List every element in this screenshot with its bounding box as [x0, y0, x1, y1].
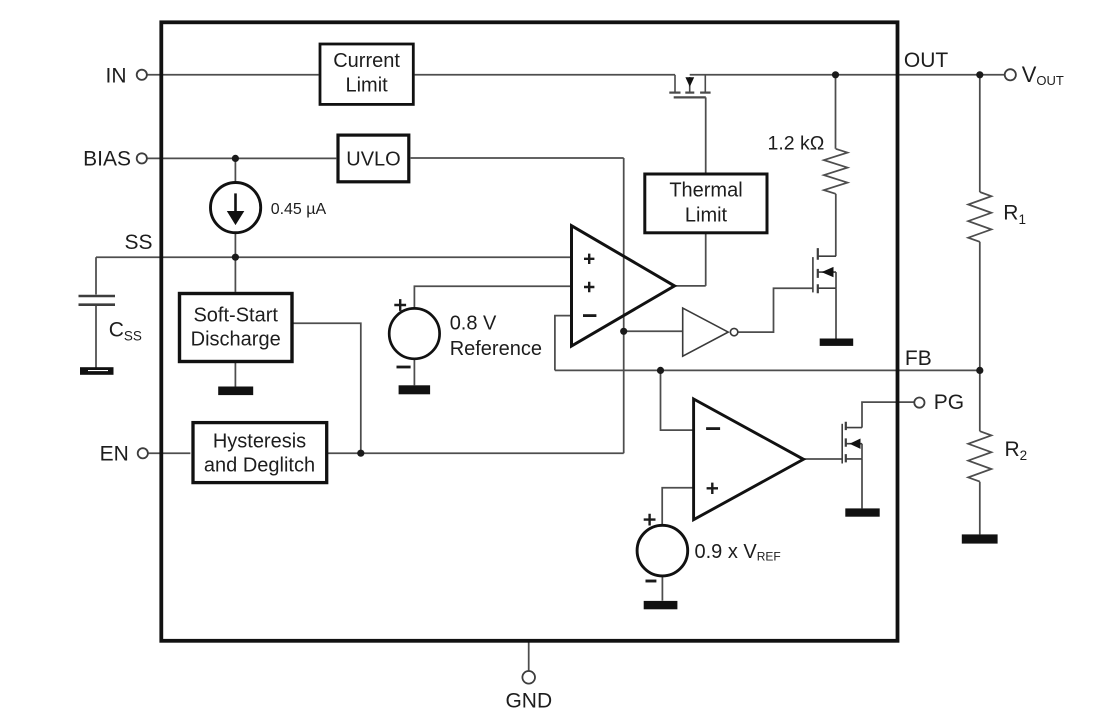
wire GND stub: [528, 642, 530, 671]
wire OUT to 1.2k resistor: [835, 75, 837, 149]
capacitor Css: [79, 296, 116, 305]
op-amp U2 power-good comparator: [694, 399, 804, 520]
svg-text:Discharge: Discharge: [191, 329, 281, 351]
ground under Soft-Start Discharge: [218, 387, 253, 396]
wire SS line to Soft-Start Discharge box: [234, 257, 236, 292]
svg-text:R2: R2: [1005, 438, 1028, 463]
ground under Q3: [845, 508, 879, 516]
svg-text:FB: FB: [905, 347, 932, 370]
resistor 1.2 kOhm: [824, 149, 848, 194]
wire comparator output to Q3 gate: [804, 458, 843, 460]
pin label OUT: [904, 49, 949, 72]
svg-text:Soft-Start: Soft-Start: [193, 305, 278, 327]
svg-text:PG: PG: [934, 391, 964, 414]
junction node inverter input: [620, 328, 627, 335]
svg-text:SS: SS: [124, 231, 152, 254]
wire Q2 source to ground: [835, 288, 837, 338]
svg-text:OUT: OUT: [904, 49, 949, 72]
value label 0.45 uA: [271, 201, 327, 218]
junction node BIAS/current-source: [232, 155, 239, 162]
wire Hysteresis output: [328, 452, 624, 454]
junction node SS/current-source: [232, 254, 239, 261]
wire Css top branch: [95, 257, 97, 294]
svg-text:0.45 µA: 0.45 µA: [271, 201, 327, 218]
pin label GND: [505, 690, 552, 713]
wire UVLO output: [411, 157, 624, 159]
wire inverter input: [624, 330, 683, 332]
wire Css bottom branch: [95, 306, 97, 368]
value label 0.9xVref: [695, 541, 781, 564]
wire FB to comparator minus input: [661, 370, 694, 430]
svg-text:Thermal: Thermal: [669, 180, 742, 202]
transistor Q3 power-good NMOS: [842, 422, 862, 464]
value label R2: [1005, 438, 1028, 463]
pin label IN: [106, 64, 127, 87]
block Hysteresis and Deglitch: [193, 423, 327, 483]
terminal EN: [138, 448, 148, 458]
wire VOUT to R1: [979, 75, 981, 192]
wire IN line left segment: [147, 74, 319, 76]
svg-text:Reference: Reference: [450, 338, 542, 360]
IC boundary box: [161, 22, 897, 641]
pin label FB: [905, 347, 932, 370]
value label 1.2 kOhm: [768, 133, 825, 155]
terminal VOUT: [1005, 69, 1016, 80]
block Current Limit: [320, 44, 413, 104]
node label PG: [934, 391, 964, 414]
svg-text:R1: R1: [1003, 202, 1026, 228]
wire Soft-Start Discharge output to EN net: [293, 323, 361, 453]
terminal IN: [137, 70, 147, 80]
voltage source V1 0.8V reference: [389, 299, 439, 367]
wire 0.8V reference to error amp + input: [414, 286, 571, 308]
wire Q3 source to ground: [861, 459, 863, 509]
wire IN line right segment to pass FET source: [415, 74, 675, 76]
wire Q3 drain to PG terminal: [862, 402, 915, 428]
wire error amp output: [675, 285, 706, 287]
svg-text:GND: GND: [505, 690, 552, 713]
svg-text:and Deglitch: and Deglitch: [204, 454, 315, 476]
wire current source to SS line: [234, 233, 236, 258]
junction node FB/R2: [976, 367, 983, 374]
wire vertical UVLO-to-EN net at x=624: [623, 158, 625, 453]
wire 1.2k resistor to Q2 drain: [835, 194, 837, 256]
pin label BIAS: [83, 148, 131, 171]
svg-text:Hysteresis: Hysteresis: [213, 431, 306, 453]
wire Soft-Start Discharge to ground: [234, 361, 236, 386]
wire OUT line: [690, 74, 1005, 76]
pin label SS: [124, 231, 152, 254]
svg-text:1.2 kΩ: 1.2 kΩ: [768, 133, 825, 155]
svg-text:BIAS: BIAS: [83, 148, 131, 171]
wire error amp minus input from FB: [555, 316, 572, 371]
junction node OUT/1.2k: [832, 71, 839, 78]
wire R2 to ground: [979, 482, 981, 535]
wire EN terminal to Hysteresis box: [148, 452, 191, 454]
junction node OUT/R1: [976, 71, 983, 78]
wire FB to R2: [979, 370, 981, 431]
block UVLO: [338, 135, 409, 182]
wire FB line: [555, 369, 980, 371]
svg-text:Current: Current: [333, 50, 400, 72]
terminal BIAS: [137, 153, 147, 163]
wire 0.8V reference to ground: [413, 359, 415, 386]
resistor R1: [968, 192, 991, 242]
inverter U3: [683, 308, 738, 356]
terminal PG: [914, 398, 924, 408]
junction node EN/Soft-Start: [357, 450, 364, 457]
svg-text:IN: IN: [106, 64, 127, 87]
wire BIAS line: [147, 157, 337, 159]
svg-text:Limit: Limit: [685, 205, 728, 227]
ground under R2: [962, 534, 998, 543]
pin label EN: [100, 442, 129, 465]
svg-text:EN: EN: [100, 442, 129, 465]
resistor R2: [968, 431, 991, 481]
svg-text:CSS: CSS: [109, 319, 142, 344]
block Thermal Limit: [645, 174, 767, 233]
svg-text:0.9 x VREF: 0.9 x VREF: [695, 541, 781, 564]
node label VOUT: [1022, 62, 1064, 88]
value label Css: [109, 319, 142, 344]
wire SS line: [96, 256, 572, 258]
voltage source V2 0.9xVref: [637, 514, 688, 581]
svg-text:UVLO: UVLO: [346, 149, 400, 171]
svg-text:Limit: Limit: [345, 75, 388, 97]
ground under 0.9xVref: [644, 601, 678, 609]
wire pass FET gate drop through Thermal Limit: [705, 97, 707, 286]
wire 0.9xVref to comparator plus input: [662, 488, 693, 526]
junction node FB/comparator: [657, 367, 664, 374]
wire inverter output to Q2 gate: [738, 288, 813, 332]
wire 0.9xVref to ground: [661, 576, 663, 601]
wire BIAS to current source: [234, 158, 236, 182]
value label R1: [1003, 202, 1026, 228]
ground under 0.8V reference: [399, 385, 431, 394]
svg-text:0.8 V: 0.8 V: [450, 313, 497, 335]
op-amp U1 error amplifier: [572, 226, 675, 346]
transistor Q1 pass PMOS: [669, 75, 710, 98]
current source I1 0.45uA: [211, 183, 261, 233]
block Soft-Start Discharge: [180, 294, 293, 362]
transistor Q2 discharge NMOS: [813, 248, 836, 293]
value label 0.8V Reference: [450, 313, 542, 361]
svg-text:VOUT: VOUT: [1022, 62, 1064, 88]
ground under Css: [80, 367, 114, 375]
ground under Q2: [820, 339, 854, 346]
terminal GND: [522, 671, 535, 684]
wire R1 to FB: [979, 242, 981, 371]
